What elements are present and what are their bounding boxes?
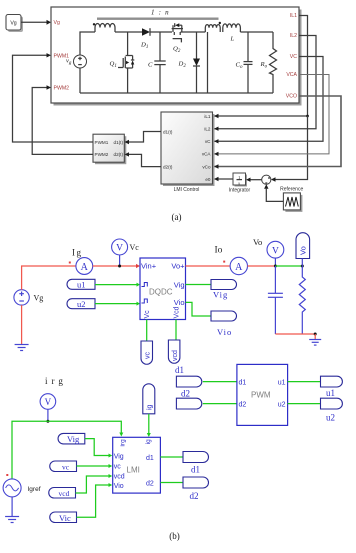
svg-text:Vo: Vo [253,237,262,247]
svg-text:1 : n: 1 : n [151,8,170,16]
svg-text:Vig: Vig [213,290,228,300]
svg-text:vc: vc [145,352,152,360]
wire Vio out [186,302,212,316]
polarity dot Igref [6,474,8,476]
tag d1 to PWM [176,376,201,387]
wire tag stub [301,259,303,267]
svg-text:Vin+: Vin+ [141,262,157,271]
svg-text:s: s [238,180,240,185]
svg-text:Io: Io [215,246,223,256]
svg-text:vcd: vcd [172,350,179,361]
svg-text:Ig: Ig [72,248,83,258]
svg-text:VCO: VCO [286,94,297,100]
tag vc left [50,461,77,472]
svg-text:iL2: iL2 [204,127,211,132]
PWM block [93,134,124,162]
wire PWM2 to converter [32,88,93,155]
wire rail to load [240,31,273,33]
svg-text:Vio: Vio [174,298,185,307]
tag vcd left [49,488,76,499]
svg-text:d2(t): d2(t) [163,165,173,170]
wire iL1 to summer [272,116,308,180]
wire Vc down [146,320,148,342]
bottom rail [80,92,273,94]
junction [274,265,277,268]
wire d2 to PWM [203,403,237,405]
wire d1 to PWM [203,381,237,383]
wire d2 out to tag [160,482,183,484]
tag d2 to PWM [176,398,201,409]
svg-text:VCA: VCA [286,72,297,78]
integrator block (shadow) [235,175,248,187]
polarity dot Io [223,261,225,263]
svg-text:vc: vc [114,464,122,471]
LMI Control block (shadow) [163,114,215,186]
svg-text:e0: e0 [205,177,211,182]
svg-text:Vo: Vo [299,246,308,255]
wire Vig tag to LMI [85,439,109,456]
svg-text:Vio: Vio [114,483,124,490]
diode D1 [142,28,150,36]
ammeter Ig [76,258,93,275]
svg-text:L: L [230,36,235,43]
transistor Q2 [172,23,183,35]
svg-text:ig: ig [145,439,152,444]
wire u1 to DQDC [95,284,137,286]
svg-text:Vio: Vio [217,327,232,337]
wire Vo+ to Io [186,265,230,267]
tag u2 [67,299,95,309]
inductor L [223,24,241,32]
svg-text:Reference: Reference [280,187,303,193]
junction iL1 branch [306,115,309,118]
wire VCO feedback [215,96,342,167]
integrator block [233,173,246,185]
svg-text:d1(t): d1(t) [163,130,173,135]
polarity dot secondary [219,22,221,24]
wire rail [181,31,206,33]
ammeter Io [230,257,247,274]
polarity dot primary [93,23,95,25]
svg-text:V: V [272,246,279,256]
wire rail [150,31,172,33]
svg-text:Vg: Vg [34,294,44,303]
wire source top to rail [80,32,95,55]
svg-text:vc: vc [62,463,70,472]
wire Vo stub [274,258,276,266]
svg-text:u2: u2 [77,299,86,309]
tag Vig left [58,433,85,444]
PWM block (shadow) [95,136,126,164]
wire d1 out to tag [160,456,183,458]
tag d2 out [183,477,209,488]
svg-text:PWM: PWM [251,391,271,400]
svg-text:d2(t): d2(t) [114,152,124,157]
tag vcd vertical [168,340,180,363]
wire IL2 feedback [215,36,317,129]
svg-text:(b): (b) [169,531,180,541]
PWM block b [237,364,288,425]
wire Vg to subsystem [21,21,47,23]
resistor Ro load [299,266,305,334]
wire rail [115,31,142,33]
svg-text:vcd: vcd [59,489,70,498]
wire u1 out [288,381,321,383]
wire Vcd down [175,320,177,341]
tag Vic left [50,512,77,523]
junction [301,265,304,268]
wire vcd tag to LMI [76,476,110,493]
svg-text:ig: ig [147,404,154,410]
wire Vg to ground [21,305,23,344]
svg-text:u1: u1 [278,380,286,387]
tag Vio right [211,311,237,321]
primary winding L1 [95,24,115,33]
ground Igref [5,517,19,523]
svg-text:IL2: IL2 [290,33,297,39]
wire Vc stub [119,255,121,266]
transformer core bar [97,18,219,20]
svg-text:d1(t): d1(t) [114,140,124,145]
wire Io to load [248,265,276,267]
svg-text:u1: u1 [77,280,86,290]
tag u1 out [321,376,343,387]
svg-text:vCA: vCA [202,152,212,157]
svg-text:LMI Control: LMI Control [174,187,200,193]
wire summer to integrator [250,179,262,181]
wire integrator to e0 [219,178,234,180]
subsystem block converter [51,7,299,103]
tag vc vertical [141,341,153,364]
ground [15,345,29,351]
capacitor C [154,32,165,93]
tag ig vertical [143,384,155,414]
DQDC converter block [140,258,186,320]
svg-text:d1: d1 [175,365,184,375]
source Igref [3,479,21,497]
svg-text:vCo: vCo [202,164,211,169]
voltmeter Vc [112,239,128,255]
junction [46,420,49,423]
tag u2 out [321,398,343,409]
svg-text:d2: d2 [181,389,190,399]
wire u2 to DQDC [95,303,137,305]
transistor Q1 [118,32,134,93]
svg-text:Vc: Vc [130,243,140,252]
svg-text:vcd: vcd [114,474,125,481]
gate port glyph 2 [142,299,148,303]
svg-text:d2: d2 [239,402,247,409]
junction [118,265,121,268]
svg-text:Vo+: Vo+ [171,261,185,270]
wire Vig out [186,284,212,286]
capacitor Co [244,32,253,93]
wire Vic tag to LMI [77,485,110,517]
svg-text:V: V [45,397,52,407]
svg-text:d1: d1 [146,455,154,462]
svg-text:Vg: Vg [10,21,16,27]
wire u2 out [288,403,321,405]
svg-text:irg: irg [45,376,67,386]
wire irg stub [47,409,49,421]
svg-text:A: A [235,262,243,273]
summer [262,175,271,184]
wire secondary return [207,32,209,93]
svg-text:u2: u2 [278,402,286,409]
svg-text:Vig: Vig [174,281,185,290]
tag d1 out [183,452,209,463]
reference generator block (shadow) [285,195,302,212]
voltage source Vg [14,290,29,305]
wire Vg to Ig ammeter [22,266,76,290]
svg-text:PWM2: PWM2 [95,152,109,157]
svg-text:d1: d1 [191,465,200,475]
gate port glyph 1 [142,283,148,287]
svg-text:Vig: Vig [67,434,80,444]
LMI block b [113,437,161,493]
svg-text:Igref: Igref [28,486,41,493]
svg-text:PWM2: PWM2 [54,86,70,92]
svg-text:Vic: Vic [59,513,71,523]
voltmeter irg [40,394,56,410]
svg-text:vC: vC [205,139,211,144]
svg-text:Vg: Vg [54,20,60,26]
tag Vig right [211,280,237,290]
svg-text:irg: irg [120,439,127,447]
wire vc tag to LMI [77,465,110,467]
wire d2 LMI to PWM [129,154,162,166]
wire VC feedback [215,57,324,142]
svg-text:Integrator: Integrator [229,188,251,194]
label Q2 with overline [173,39,182,54]
wire IL1 feedback [215,16,308,117]
junction [314,333,317,336]
wire PWM1 to converter [13,55,94,142]
svg-text:d2: d2 [190,491,199,501]
svg-text:DQDC: DQDC [149,288,173,297]
resistor Ro [270,32,277,93]
svg-text:VC: VC [290,54,297,60]
wire Igref to ground [11,497,13,517]
polarity dot Ig [69,262,71,264]
tag u1 [67,279,95,289]
svg-text:IL1: IL1 [290,13,297,19]
svg-text:u1: u1 [326,388,335,398]
wire d1 LMI to PWM [129,132,162,143]
ground load [309,340,321,346]
svg-text:V: V [116,244,123,254]
svg-text:d1: d1 [239,380,247,387]
wire Igref bus [12,421,121,479]
secondary winding [205,25,220,32]
svg-text:A: A [81,262,89,273]
svg-text:iL1: iL1 [204,114,211,119]
wire VCA feedback [215,75,330,154]
diode D2 [193,32,200,93]
source block Vg [6,15,23,33]
reference generator block [283,193,300,210]
waveform icon [286,197,299,207]
svg-text:PWM1: PWM1 [95,140,109,145]
wire ground stub [314,334,316,340]
LMI Control block [161,112,213,184]
svg-text:C: C [148,62,153,69]
svg-text:d2: d2 [146,481,154,488]
wire ig tag to LMI [148,414,150,434]
capacitor Co load [268,266,283,334]
svg-text:Vig: Vig [114,454,124,461]
wire Ig to Vin+ [93,265,137,267]
wire reference to summer [266,189,283,202]
voltage source vg [74,55,87,68]
svg-text:Vcd: Vcd [173,306,180,318]
wire load bottom [275,333,315,335]
svg-text:(a): (a) [172,212,182,222]
svg-text:u2: u2 [326,413,335,423]
wire source bottom to bottom rail [79,68,81,93]
voltmeter Vo [267,241,284,258]
svg-text:Vc: Vc [144,310,151,319]
tag Vo vertical [296,233,310,259]
wire junction to resistor [275,265,302,267]
svg-text:LMI: LMI [127,466,140,475]
subsystem block converter (shadow) [54,10,302,106]
